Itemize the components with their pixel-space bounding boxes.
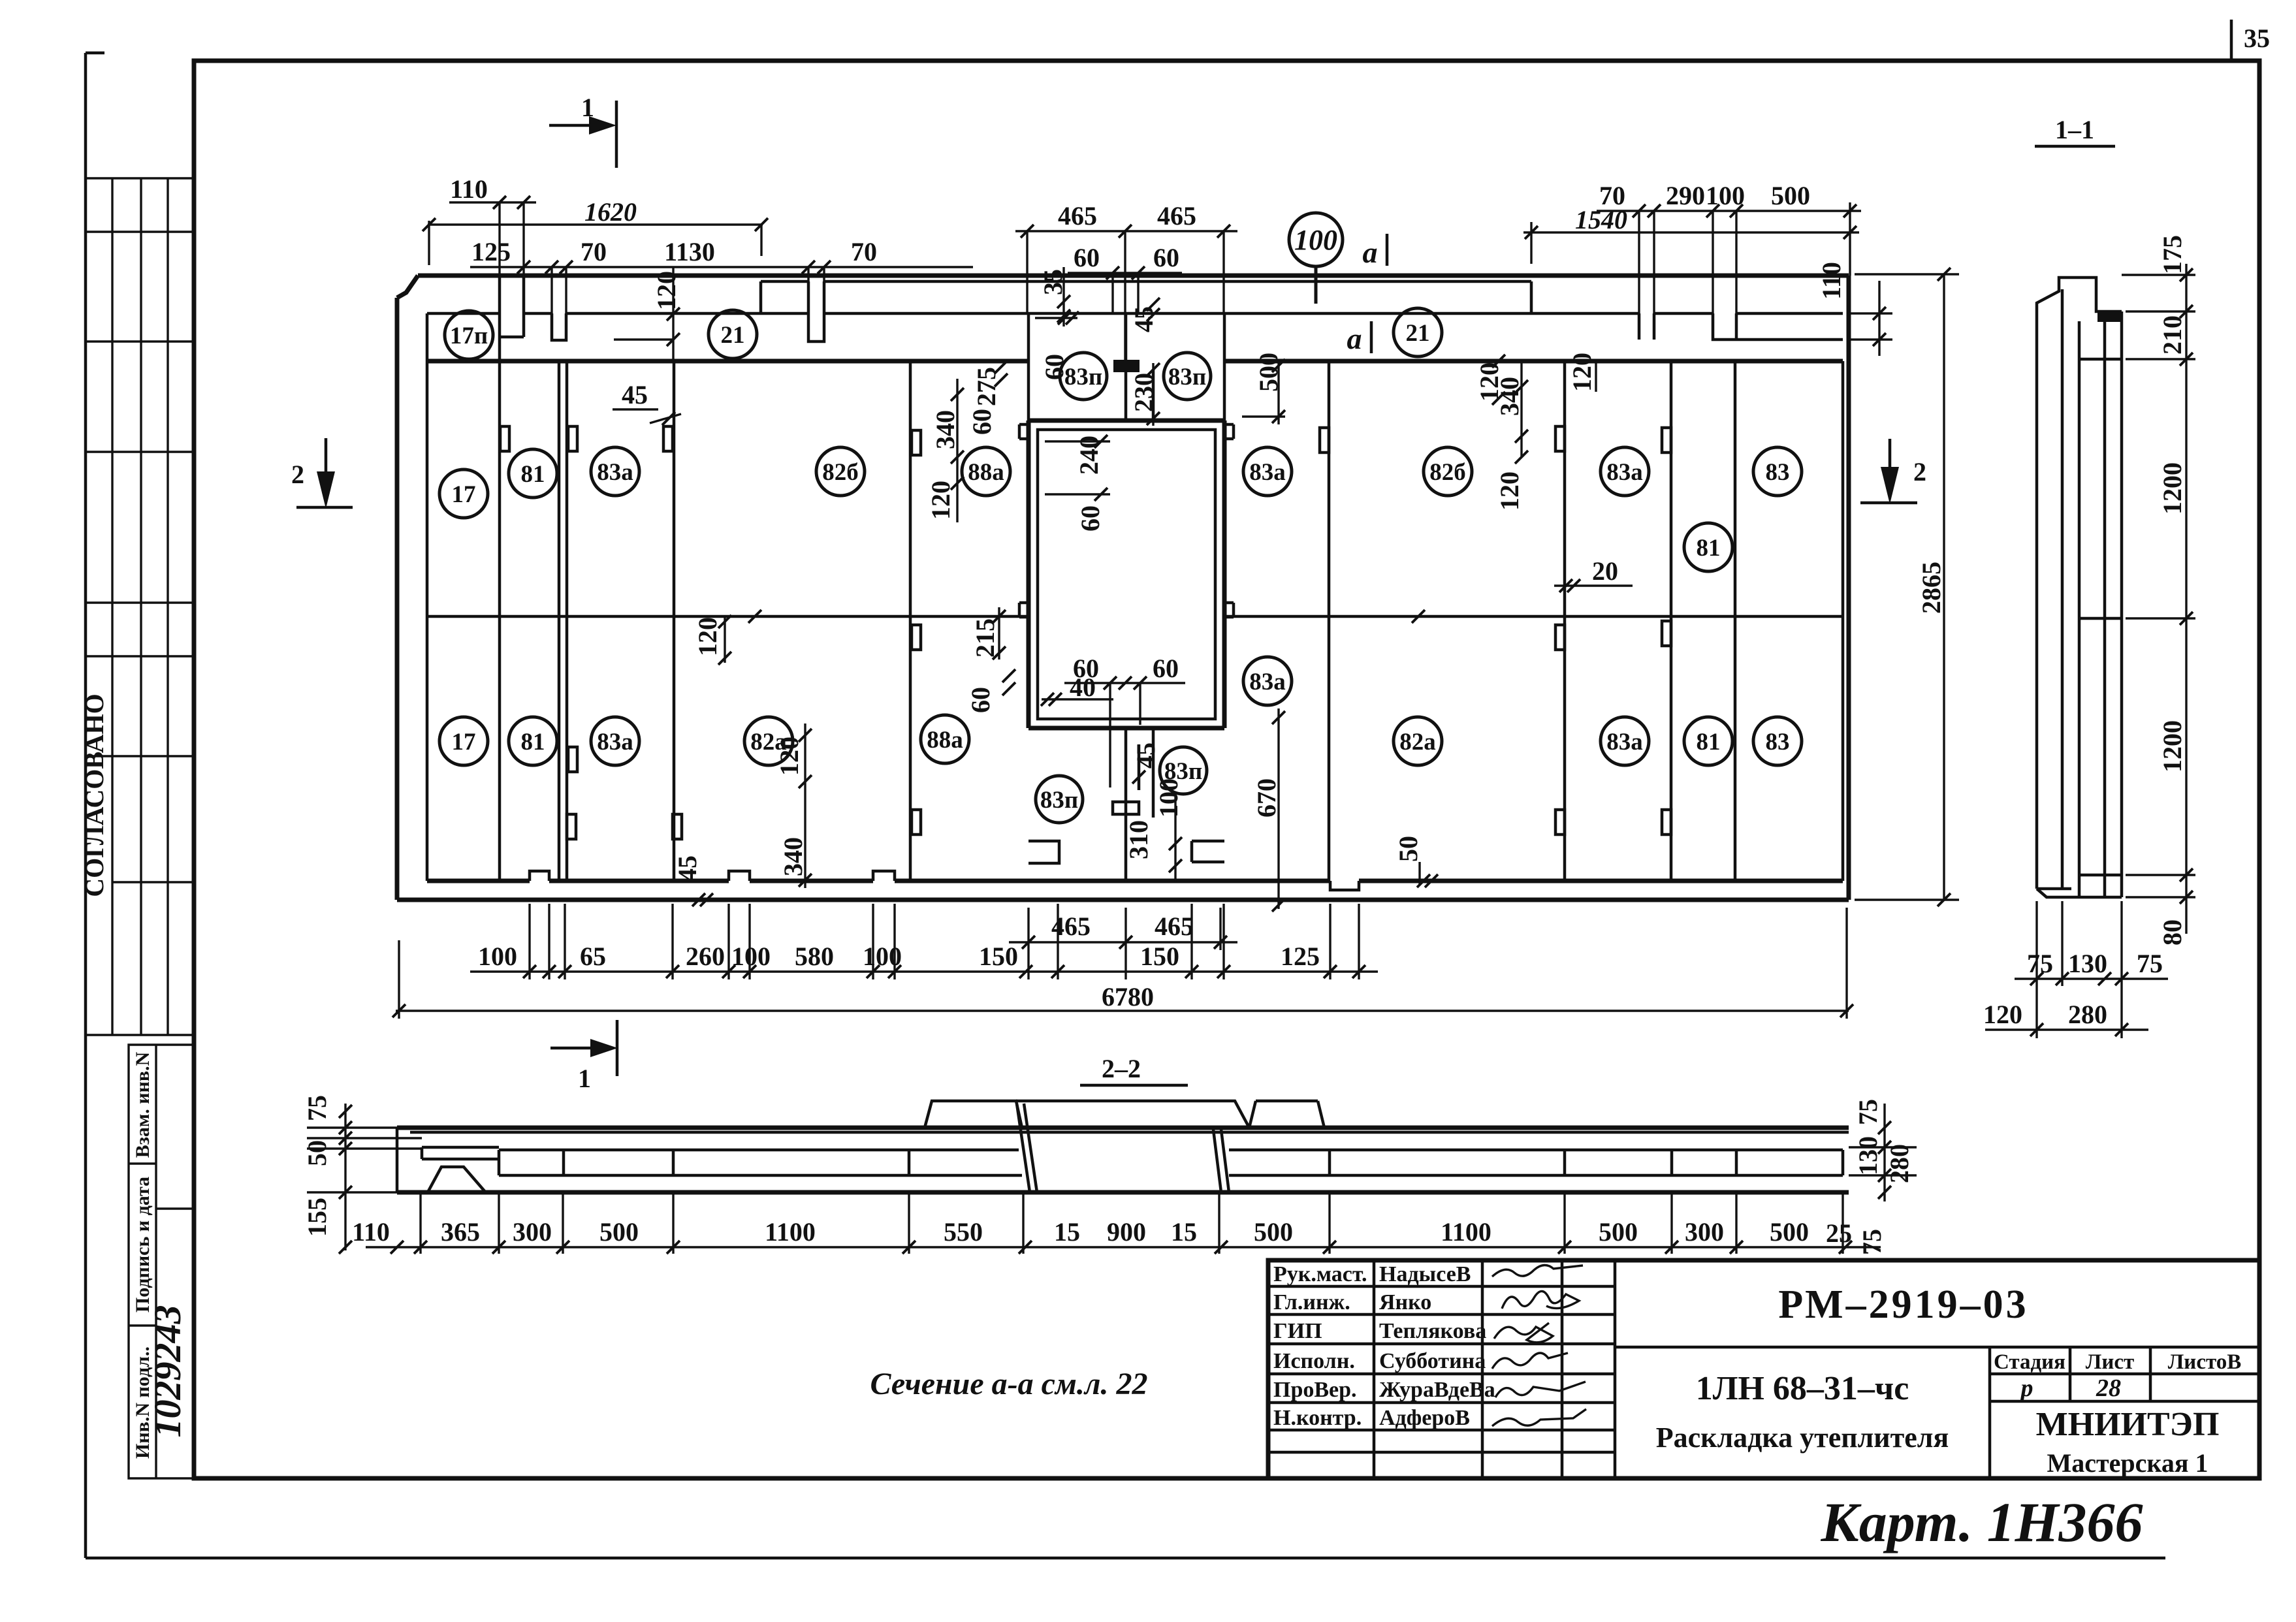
svg-text:82б: 82б (1429, 459, 1466, 486)
mark circle 83а bottom-left (591, 717, 639, 765)
mark circle 17 bottom (439, 717, 488, 765)
inplan dim 670 right (1252, 708, 1285, 912)
svg-text:310: 310 (1124, 820, 1153, 859)
svg-text:РМ–2919–03: РМ–2919–03 (1778, 1282, 2028, 1327)
inplan dim 340 120 right stack (1495, 353, 1597, 511)
svg-text:60: 60 (1074, 243, 1100, 272)
svg-text:Раскладка утеплителя: Раскладка утеплителя (1656, 1422, 1949, 1454)
svg-text:900: 900 (1107, 1217, 1146, 1247)
band slot 70 mid (808, 281, 824, 342)
svg-text:83а: 83а (1249, 669, 1286, 695)
door notch e (1555, 426, 1565, 451)
door notch d (1320, 428, 1329, 453)
svg-text:а: а (1347, 322, 1362, 355)
svg-text:500: 500 (1254, 1217, 1293, 1247)
band slot pair 70 right (1639, 313, 1654, 340)
section 2-2 panels row right (1229, 1150, 1843, 1175)
svg-text:45: 45 (622, 380, 648, 409)
dim 1540 handwritten (1523, 205, 1859, 264)
lower zone corner box left (1028, 841, 1059, 863)
section mark а lower (1347, 321, 1372, 355)
partition x2559 (1670, 361, 1673, 881)
mark circle 100 handwritten (1289, 213, 1343, 304)
svg-text:83п: 83п (1064, 364, 1102, 390)
svg-text:1100: 1100 (765, 1217, 816, 1247)
svg-text:65: 65 (580, 942, 606, 971)
svg-text:28: 28 (2096, 1375, 2121, 1402)
plan right outer wall (1847, 276, 1851, 900)
svg-text:2–2: 2–2 (1102, 1054, 1141, 1083)
svg-text:60: 60 (1153, 654, 1179, 683)
svg-text:1029243: 1029243 (146, 1305, 189, 1438)
svg-text:НадысеВ: НадысеВ (1379, 1262, 1471, 1286)
svg-text:р: р (2019, 1375, 2033, 1402)
svg-text:465: 465 (1155, 912, 1194, 941)
svg-text:40: 40 (1070, 673, 1096, 702)
band slot 110 (500, 277, 524, 361)
svg-text:60: 60 (1076, 505, 1105, 532)
svg-text:АдфероВ: АдфероВ (1379, 1406, 1470, 1430)
section 2-2 cap trapezoid left (925, 1101, 1022, 1128)
mark circle 83п upper-right (1164, 353, 1211, 400)
section 1-1 bottom dims 120 280 (1983, 1000, 2148, 1036)
plan left outer wall (395, 298, 400, 900)
svg-text:150: 150 (979, 942, 1018, 971)
svg-text:Сечение а-а см.л. 22: Сечение а-а см.л. 22 (870, 1367, 1148, 1401)
door notch f (1662, 428, 1671, 453)
svg-text:21: 21 (721, 322, 745, 349)
section 2-2 left trapezoid rib (428, 1167, 485, 1191)
dim 120 band height left (614, 267, 681, 361)
svg-text:125: 125 (471, 237, 511, 266)
svg-text:120: 120 (1567, 353, 1597, 392)
section marker 1 top (549, 93, 616, 168)
dim 60 rotated box (1035, 311, 1079, 380)
svg-text:МНИИТЭП: МНИИТЭП (2036, 1406, 2220, 1443)
svg-text:60: 60 (967, 409, 997, 435)
section 1-1 bottom dims 75 130 75 (2015, 901, 2168, 1038)
svg-text:120: 120 (652, 271, 681, 310)
svg-text:110: 110 (1817, 262, 1846, 300)
svg-text:1: 1 (578, 1064, 591, 1093)
mark circle 88а bottom (921, 715, 969, 763)
SECTION22 (302, 1054, 1917, 1255)
dim 35 rotated (1038, 267, 1070, 326)
band slot 100 right (1713, 313, 1843, 340)
mark circle 83п upper-left (1060, 353, 1107, 400)
svg-text:Н.контр.: Н.контр. (1273, 1406, 1362, 1430)
TITLEBLOCK (1268, 1260, 2259, 1478)
svg-text:20: 20 (1592, 556, 1618, 586)
svg-text:83а: 83а (597, 729, 633, 755)
svg-text:17п: 17п (450, 323, 488, 349)
sheet trim left edge (86, 53, 104, 1558)
dim 45 rotated band (1129, 298, 1160, 332)
mark circle 81 bottom-left (509, 717, 557, 765)
svg-text:1620: 1620 (584, 197, 637, 227)
svg-text:120: 120 (1495, 471, 1524, 511)
section 2-2 mid flat top (1016, 1101, 1249, 1128)
mark circle 83а bottom-right (1601, 717, 1649, 765)
svg-text:45: 45 (673, 855, 702, 882)
section mark а upper (1363, 234, 1388, 269)
dim 230 rotated (1129, 363, 1160, 426)
svg-text:100: 100 (863, 942, 902, 971)
mark circle 83 top-right (1753, 447, 1802, 496)
section 2-2 cap trapezoid right (1249, 1101, 1324, 1128)
svg-text:ПроВер.: ПроВер. (1273, 1378, 1357, 1402)
mark circle 81 top-left (509, 449, 557, 498)
svg-text:Карт. 1Н366: Карт. 1Н366 (1820, 1491, 2143, 1553)
inplan dim 45 100 310 lower shaft (1124, 742, 1183, 883)
svg-text:Взам. инв.N: Взам. инв.N (132, 1051, 153, 1158)
svg-text:100: 100 (478, 942, 517, 971)
svg-text:100: 100 (1154, 778, 1183, 818)
svg-text:Рук.маст.: Рук.маст. (1273, 1262, 1367, 1286)
svg-text:ГИП: ГИП (1273, 1319, 1322, 1343)
shaft wall notch right upper (1224, 424, 1234, 439)
SIDETABLE (80, 178, 194, 1478)
svg-text:15: 15 (1171, 1217, 1197, 1247)
svg-text:Теплякова: Теплякова (1379, 1319, 1486, 1343)
svg-text:Субботина: Субботина (1379, 1349, 1486, 1373)
sheet trim bottom edge (86, 1557, 2165, 1560)
bottom wall bump 1 (530, 871, 549, 881)
svg-text:500: 500 (1771, 181, 1810, 210)
svg-text:120: 120 (693, 617, 722, 656)
door notch i (567, 814, 576, 839)
svg-text:1–1: 1–1 (2055, 115, 2094, 144)
section marker 1 bottom (550, 1020, 618, 1093)
bottom wall step 50 (1330, 881, 1359, 890)
door notch m (1662, 621, 1671, 646)
svg-text:83п: 83п (1040, 787, 1078, 814)
signature table columns (1374, 1260, 1615, 1478)
door notch b (663, 426, 673, 451)
mark circle 83п lower-left (1036, 776, 1083, 823)
door notch k (912, 810, 921, 835)
svg-text:СОГЛАСОВАНО: СОГЛАСОВАНО (80, 693, 109, 897)
svg-text:280: 280 (1885, 1144, 1914, 1183)
svg-text:21: 21 (1406, 320, 1430, 347)
section 2-2 panels row left (499, 1150, 1022, 1175)
svg-text:1200: 1200 (2158, 462, 2187, 515)
svg-text:Лист: Лист (2086, 1350, 2134, 1374)
door notch o (1662, 810, 1671, 835)
svg-text:580: 580 (795, 942, 834, 971)
svg-text:80: 80 (2158, 919, 2187, 946)
door notch p (500, 426, 509, 451)
svg-text:81: 81 (1697, 535, 1721, 562)
svg-text:465: 465 (1058, 201, 1097, 231)
mark circle 83а right2 (1601, 447, 1649, 496)
door notch l (1555, 625, 1565, 650)
dim 2865 vertical right (1855, 268, 1959, 906)
lower stamp block (129, 1045, 194, 1478)
svg-text:120: 120 (1983, 1000, 2022, 1029)
svg-text:83: 83 (1766, 729, 1790, 755)
dim 110 rotated top-right (1817, 262, 1892, 356)
svg-text:280: 280 (2068, 1000, 2107, 1029)
svg-text:75: 75 (302, 1095, 332, 1121)
svg-text:215: 215 (970, 618, 1000, 658)
inner frame border (194, 61, 2259, 1478)
svg-text:ЖураВдеВа: ЖураВдеВа (1379, 1378, 1495, 1402)
PLANWALLS (397, 276, 1849, 900)
section 2-2 left slab (422, 1147, 499, 1159)
svg-text:340: 340 (931, 410, 960, 449)
svg-text:290: 290 (1666, 181, 1705, 210)
upper boxes filled spacer (1113, 360, 1140, 372)
mark circle 82б right (1424, 447, 1472, 496)
middle divider row line (427, 615, 1843, 618)
partition x2035 (1328, 361, 1331, 881)
inplan dim 340 120 left stack (926, 379, 964, 522)
inplan dim 120 mid divider left (693, 610, 761, 665)
svg-text:75: 75 (2137, 949, 2163, 978)
signature scribbles (1492, 1265, 1586, 1426)
mark circle 81 mid-right (1684, 523, 1732, 571)
svg-text:88а: 88а (968, 459, 1004, 486)
svg-text:Мастерская 1: Мастерская 1 (2047, 1448, 2208, 1478)
mark circle 88а top (962, 447, 1010, 496)
inplan dim 40 60 60 shaft bottom (1041, 654, 1185, 787)
svg-text:75: 75 (1853, 1099, 1883, 1125)
svg-text:Подпись и дата: Подпись и дата (132, 1177, 153, 1312)
partition x1032 (673, 361, 676, 881)
lower zone corner box right (1192, 841, 1224, 862)
dim 110 top-left (449, 174, 536, 277)
dim row1 465 465 bottom (1009, 908, 1237, 979)
svg-text:70: 70 (851, 237, 877, 266)
partition x2396 (1563, 361, 1567, 881)
plan top-left chamfer corner (397, 276, 418, 298)
mark circle 83а right3 (1243, 657, 1292, 705)
mark circle 81 bottom-right (1684, 717, 1732, 765)
svg-text:1200: 1200 (2158, 720, 2187, 772)
section 2-2 bottom dim row (352, 1192, 1881, 1254)
plan top second line (761, 281, 1531, 313)
svg-text:Исполн.: Исполн. (1273, 1349, 1355, 1373)
svg-text:Гл.инж.: Гл.инж. (1273, 1290, 1350, 1314)
mark circle 83а top-left (591, 447, 639, 496)
HANDWRITTEN2 (870, 1367, 2143, 1553)
svg-text:300: 300 (1685, 1217, 1724, 1247)
mark circle 83а right1 (1243, 447, 1292, 496)
svg-text:210: 210 (2158, 315, 2187, 355)
svg-text:70: 70 (581, 237, 607, 266)
svg-text:17: 17 (452, 481, 476, 508)
mark circle 21 left (709, 310, 757, 358)
svg-text:550: 550 (944, 1217, 983, 1247)
shaft inner wall (1038, 430, 1215, 719)
mark circle 21 right (1394, 308, 1442, 357)
mark circle 83п lower-right (1160, 747, 1207, 794)
plan outer top edge (418, 274, 1849, 278)
section marker 2 right (1860, 439, 1926, 504)
dim row2 bottom (470, 904, 1378, 979)
mark circle 17п (445, 311, 493, 359)
section 2-2 right dims 75 130 280 75 (1849, 1099, 1917, 1255)
svg-text:130: 130 (2068, 949, 2107, 978)
title block outer frame (1268, 1260, 2259, 1478)
svg-text:83а: 83а (1606, 729, 1643, 755)
svg-text:300: 300 (513, 1217, 552, 1247)
inner right wall (1842, 361, 1845, 881)
shaft wall notch right lower (1224, 603, 1234, 617)
inplan dim 240 60 shaft (1045, 435, 1110, 532)
svg-text:1130: 1130 (664, 237, 715, 266)
lintel band top line (427, 312, 1843, 315)
door notch h (912, 625, 921, 650)
door notch g (568, 747, 577, 772)
svg-text:2: 2 (291, 460, 304, 489)
svg-text:465: 465 (1157, 201, 1196, 231)
svg-text:120: 120 (926, 481, 955, 520)
section 1-1 top filled key (2097, 311, 2122, 322)
section 1-1 bottom (2037, 889, 2122, 897)
svg-text:130: 130 (1853, 1136, 1883, 1175)
lower shaft zone dividers (1126, 728, 1153, 883)
shaft outer wall (1028, 421, 1224, 728)
section 1-1 right dim line (2122, 235, 2195, 946)
svg-text:81: 81 (521, 729, 545, 755)
svg-text:260: 260 (686, 942, 725, 971)
svg-text:1ЛН 68–31–чс: 1ЛН 68–31–чс (1696, 1370, 1909, 1407)
band slot 70 left (552, 313, 566, 340)
svg-text:125: 125 (1281, 942, 1320, 971)
DIMS (291, 93, 1959, 1093)
door notch j (673, 814, 682, 839)
svg-text:60: 60 (1040, 354, 1069, 380)
svg-text:60: 60 (1153, 243, 1179, 272)
inplan dim 50 right (1394, 836, 1438, 887)
section 2-2 bottom line (397, 1190, 1849, 1195)
right cells dividers (1615, 1347, 2259, 1478)
dim row 70 290 100 500 (1597, 181, 1861, 340)
svg-text:17: 17 (452, 729, 476, 755)
svg-text:670: 670 (1252, 778, 1281, 818)
lower zone spacer box (1113, 802, 1139, 814)
SECTION11 (1983, 115, 2195, 1038)
section 2-2 left dims 75 50 155 (302, 1095, 422, 1254)
inner left wall (426, 313, 429, 881)
svg-text:1100: 1100 (1441, 1217, 1491, 1247)
svg-text:83а: 83а (1606, 459, 1643, 486)
bottom wall bump 2 (729, 871, 750, 881)
svg-text:60: 60 (966, 687, 995, 713)
svg-text:500: 500 (1770, 1217, 1809, 1247)
inplan dim 45 left (613, 380, 681, 425)
svg-text:1540: 1540 (1575, 205, 1627, 234)
svg-text:83п: 83п (1168, 364, 1206, 390)
inplan dim 120 340 45 bottom-left (673, 724, 812, 906)
section 1-1 inner lines (2079, 359, 2122, 875)
inner bottom wall (427, 879, 1843, 883)
section 1-1 panel profile (2037, 278, 2122, 889)
svg-text:50: 50 (1394, 836, 1423, 862)
svg-text:ЛистоВ: ЛистоВ (2168, 1350, 2242, 1374)
section 2-2 shaft wall right slant (1213, 1130, 1229, 1192)
svg-text:82а: 82а (1399, 729, 1436, 755)
inplan dim 275 60 (967, 360, 1008, 435)
partition x856 double (559, 361, 567, 881)
inplan dim 500 right (1242, 353, 1285, 424)
section marker 2 left (291, 438, 353, 509)
dim 1620 handwritten (423, 197, 768, 265)
upper boxes above shaft (1028, 313, 1224, 421)
svg-text:155: 155 (302, 1198, 332, 1237)
svg-text:83а: 83а (1249, 459, 1286, 486)
svg-text:175: 175 (2158, 235, 2187, 274)
svg-text:83: 83 (1766, 459, 1790, 486)
mark circle 82б left (816, 447, 865, 496)
svg-text:2865: 2865 (1917, 562, 1946, 614)
svg-text:88а: 88а (927, 727, 963, 754)
svg-text:6780: 6780 (1102, 982, 1154, 1011)
svg-text:340: 340 (778, 837, 808, 876)
section 2-2 shaft wall left slant (1017, 1104, 1037, 1192)
dim 6780 overall (392, 908, 1853, 1019)
bottom wall bump 3 (873, 871, 895, 881)
door notch a (568, 426, 577, 451)
svg-text:35: 35 (2244, 24, 2270, 53)
shaft wall notch left lower (1019, 603, 1028, 617)
mark circle 82а left (744, 717, 793, 765)
dim 60 60 shaft top (1068, 243, 1182, 313)
svg-text:75: 75 (1857, 1229, 1887, 1255)
svg-text:110: 110 (450, 174, 488, 204)
svg-text:45: 45 (1131, 742, 1160, 769)
inplan dim 20 right (1554, 556, 1633, 592)
svg-text:83а: 83а (597, 459, 633, 486)
svg-text:100: 100 (1706, 181, 1745, 210)
svg-text:82б: 82б (822, 459, 859, 486)
svg-text:150: 150 (1140, 942, 1179, 971)
svg-text:Стадия: Стадия (1994, 1350, 2065, 1374)
svg-text:81: 81 (1697, 729, 1721, 755)
svg-text:а: а (1363, 236, 1378, 269)
mark circle 82а right (1394, 717, 1442, 765)
mark circle 17 top (439, 469, 488, 518)
svg-text:500: 500 (1599, 1217, 1638, 1247)
svg-text:Янко: Янко (1379, 1290, 1431, 1314)
svg-text:81: 81 (521, 461, 545, 488)
partition x1394 (909, 361, 912, 881)
inplan dim 120 right divider (1412, 355, 1505, 623)
svg-text:500: 500 (599, 1217, 639, 1247)
door notch n (1555, 810, 1565, 835)
svg-text:365: 365 (441, 1217, 480, 1247)
mark circle 83 bottom-right (1753, 717, 1802, 765)
svg-text:45: 45 (1129, 306, 1158, 332)
partition x2657 (1734, 361, 1737, 881)
lintel band bottom line (427, 359, 1843, 364)
door notch c (912, 430, 921, 455)
svg-text:15: 15 (1054, 1217, 1080, 1247)
signature table rows (1268, 1286, 1615, 1452)
svg-text:100: 100 (731, 942, 771, 971)
dim 465 465 shaft top (1015, 201, 1237, 360)
section 2-2 top chord (397, 1126, 1849, 1130)
CIRCLES (439, 213, 1802, 823)
plan bottom outer wall (397, 898, 1849, 902)
svg-text:50: 50 (302, 1140, 332, 1166)
svg-text:100: 100 (1294, 224, 1337, 256)
dim row 125 70 1130 70 (470, 237, 973, 313)
section 2-2 left end (396, 1128, 399, 1192)
side table rows (86, 178, 194, 1035)
